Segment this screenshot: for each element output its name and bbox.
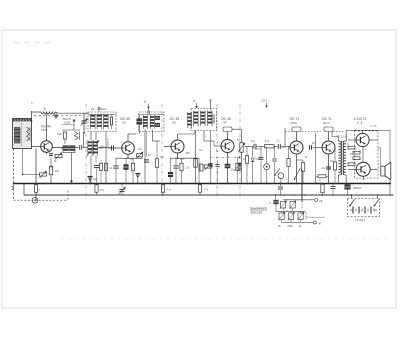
svg-text:0A79: 0A79 bbox=[255, 148, 261, 151]
svg-text:(0071): (0071) bbox=[291, 123, 298, 125]
svg-text:C024: C024 bbox=[64, 121, 71, 125]
svg-text:(0071): (0071) bbox=[323, 123, 330, 125]
svg-text:( 6 Volt ): ( 6 Volt ) bbox=[355, 218, 365, 222]
svg-text:W: W bbox=[44, 107, 47, 111]
svg-text:Ruhestromeinstell.: Ruhestromeinstell. bbox=[310, 216, 326, 219]
svg-text:4,7k: 4,7k bbox=[265, 140, 270, 143]
svg-text:8.2k: 8.2k bbox=[57, 133, 62, 136]
svg-text:(11'): (11') bbox=[262, 99, 267, 103]
svg-text:201: 201 bbox=[122, 121, 127, 124]
svg-text:2-OC72: 2-OC72 bbox=[354, 117, 367, 121]
svg-text:-B: -B bbox=[318, 221, 321, 225]
svg-text:a~0,2A: a~0,2A bbox=[370, 124, 378, 127]
svg-text:TB-D: TB-D bbox=[41, 128, 47, 132]
svg-text:11': 11' bbox=[144, 100, 148, 104]
svg-text:2N1: 2N1 bbox=[172, 121, 177, 124]
svg-text:m: m bbox=[31, 103, 33, 105]
svg-text:+500uF: +500uF bbox=[353, 186, 362, 190]
svg-text:OC 44: OC 44 bbox=[41, 125, 51, 129]
svg-text:+B: +B bbox=[319, 199, 323, 203]
svg-text:OC 71: OC 71 bbox=[290, 117, 300, 121]
svg-text:DA70: DA70 bbox=[63, 117, 71, 121]
svg-text:2N?: 2N? bbox=[223, 121, 228, 124]
svg-text:OC 71: OC 71 bbox=[322, 117, 332, 121]
svg-text:Quadratisch: Quadratisch bbox=[250, 206, 267, 210]
svg-text:11': 11' bbox=[193, 99, 197, 103]
svg-text:2x4k: 2x4k bbox=[288, 225, 294, 228]
svg-text:BRC242: BRC242 bbox=[251, 211, 263, 215]
